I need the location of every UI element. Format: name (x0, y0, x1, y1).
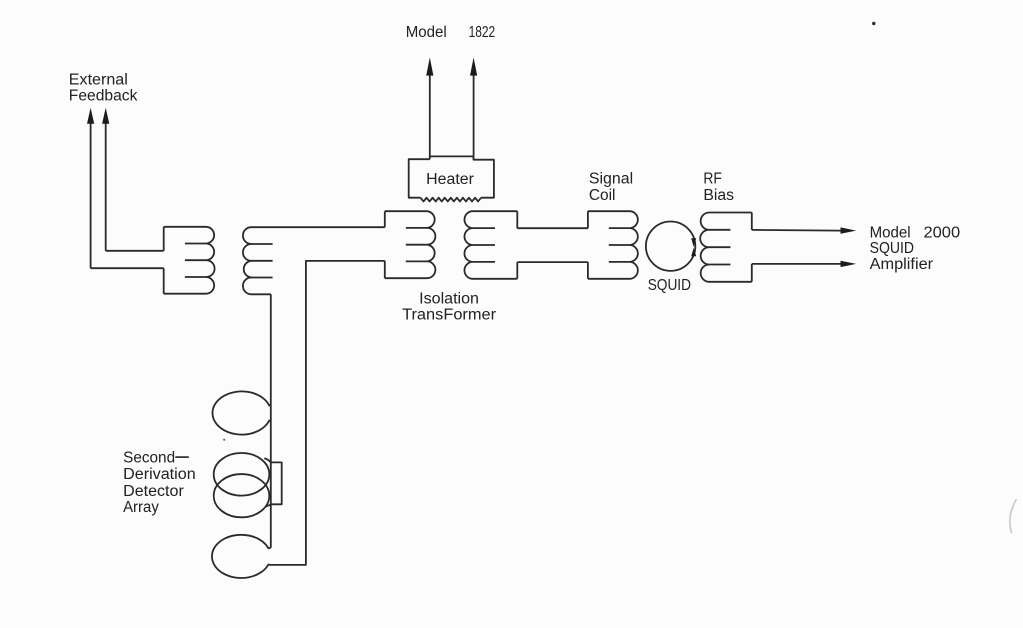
svg-text:Array: Array (123, 499, 159, 516)
svg-text:Model: Model (406, 24, 447, 41)
svg-text:2000: 2000 (924, 224, 961, 241)
svg-text:Detector: Detector (123, 483, 184, 500)
svg-text:Derivation: Derivation (123, 466, 196, 483)
svg-text:Amplifier: Amplifier (870, 256, 934, 273)
svg-text:RF: RF (703, 170, 722, 187)
svg-text:Heater: Heater (426, 171, 474, 188)
svg-text:SQUID: SQUID (870, 240, 914, 257)
svg-text:Isolation: Isolation (419, 290, 479, 307)
svg-text:SQUID: SQUID (648, 277, 691, 294)
svg-text:TransFormer: TransFormer (402, 306, 496, 323)
svg-text:Bias: Bias (703, 187, 734, 204)
svg-text:External: External (69, 71, 128, 88)
svg-text:Signal: Signal (589, 170, 633, 187)
svg-text:Coil: Coil (589, 187, 616, 204)
svg-text:Second: Second (123, 450, 175, 467)
svg-text:Model: Model (870, 224, 911, 241)
svg-text:Feedback: Feedback (69, 88, 138, 105)
svg-text:1822: 1822 (469, 24, 496, 41)
